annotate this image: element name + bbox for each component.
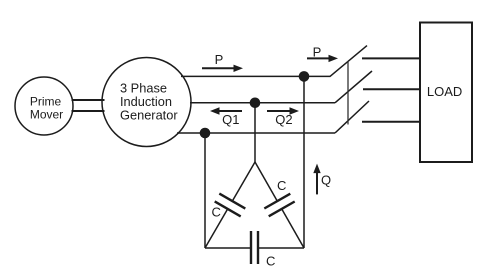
- wire delta right side lower (C2 to corner): [282, 209, 304, 248]
- arrow Q1 (reactive power to generator): [210, 107, 242, 114]
- wire phase 2 drop to capacitor bank: [254, 103, 256, 162]
- svg-text:C: C: [277, 178, 286, 193]
- svg-text:P: P: [215, 52, 224, 67]
- svg-text:Prime: Prime: [30, 95, 62, 109]
- svg-text:P: P: [313, 45, 322, 60]
- switch blade phase 1: [330, 46, 367, 77]
- svg-text:LOAD: LOAD: [427, 84, 462, 99]
- switch blade phase 2: [335, 71, 372, 103]
- wire delta bottom left (corner to C3): [205, 247, 251, 249]
- svg-text:C: C: [212, 205, 221, 220]
- junction node phase 2: [250, 98, 261, 109]
- junction node phase 3: [200, 128, 211, 139]
- wire phase 3 drop to capacitor bank: [204, 133, 206, 248]
- arrow P (to load): [307, 55, 338, 62]
- svg-text:C: C: [266, 254, 275, 269]
- wire phase 2 (generator to switch): [190, 102, 335, 104]
- wire phase 3 (generator to switch): [177, 132, 335, 134]
- generator G (3-phase induction): [102, 58, 191, 147]
- svg-text:Generator: Generator: [120, 108, 178, 123]
- svg-text:Q1: Q1: [222, 112, 239, 127]
- arrow P (power from generator): [202, 65, 243, 72]
- wire delta left side upper (apex to C1): [232, 162, 255, 201]
- svg-text:Q: Q: [321, 173, 331, 188]
- arrow Q2 (reactive power to load): [267, 107, 299, 114]
- wire delta right side upper (apex to C2): [255, 162, 277, 201]
- switch blade phase 3: [335, 101, 369, 133]
- wire phase 3 switch to load: [362, 121, 421, 123]
- capacitor C3 (bottom leg): [251, 231, 258, 264]
- junction node phase 1: [299, 71, 310, 82]
- prime mover M: [15, 77, 73, 135]
- svg-text:Q2: Q2: [275, 112, 292, 127]
- shaft coupling: [72, 100, 105, 111]
- wire delta left side lower (C1 to corner): [205, 209, 228, 248]
- switch gang bar: [347, 61, 349, 125]
- capacitor C2 (right leg): [264, 194, 294, 217]
- capacitor C1 (left leg): [215, 194, 246, 217]
- wire phase 2 switch to load: [363, 88, 421, 90]
- arrow Q (reactive power from capacitor bank): [313, 164, 320, 195]
- load box LOAD: [420, 23, 472, 163]
- wire phase 1 (generator to switch): [181, 75, 331, 77]
- wire delta bottom right (C3 to corner): [258, 247, 304, 249]
- svg-text:Mover: Mover: [30, 108, 63, 122]
- wire phase 1 switch to load: [362, 57, 421, 59]
- wire phase 1 drop to capacitor bank: [303, 76, 305, 248]
